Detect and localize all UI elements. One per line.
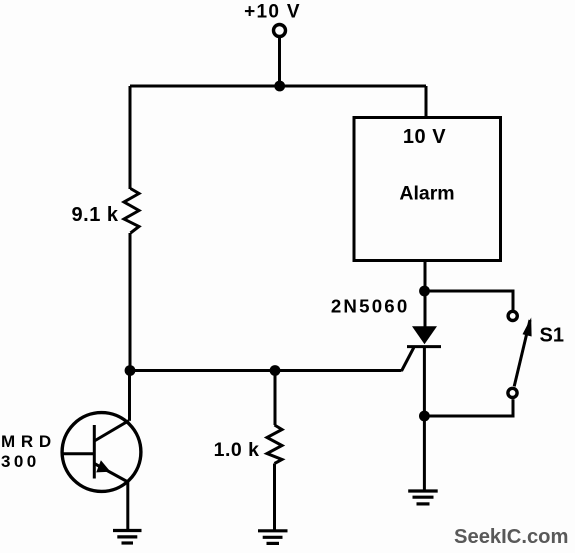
switch S1 lever [514, 320, 530, 386]
svg-text:300: 300 [1, 452, 40, 471]
alarm box [354, 118, 501, 261]
phototransistor emitter lead [94, 464, 128, 483]
wire emitter to ground [126, 482, 129, 530]
phototransistor emitter arrowhead [96, 460, 110, 472]
svg-text:MRD: MRD [1, 432, 57, 451]
phototransistor collector lead [94, 421, 129, 441]
svg-text:SeekIC.com: SeekIC.com [454, 526, 568, 548]
node left junction [125, 365, 136, 376]
wire bus to resistor R1 [129, 86, 132, 189]
ground right [408, 491, 438, 504]
wire bus to alarm box [425, 86, 428, 119]
SCR 2N5060 anode triangle [412, 326, 437, 344]
phototransistor MRD300 body [62, 413, 141, 492]
svg-text:+10 V: +10 V [244, 2, 301, 23]
switch S1 lever arrowhead [523, 318, 532, 337]
wire resistor R2 to ground [273, 464, 276, 530]
phototransistor base lead [63, 452, 94, 455]
SCR gate lead [402, 348, 414, 372]
switch S1 bottom terminal [508, 388, 517, 397]
switch S1 top terminal [508, 311, 517, 320]
wire bottom junction to switch bottom [424, 399, 513, 416]
wire bottom junction to ground [423, 416, 426, 490]
node bottom junction [419, 411, 430, 422]
wire middle node to resistor R2 [274, 371, 277, 426]
SCR cathode bar [407, 345, 441, 348]
node bus junction [274, 81, 285, 92]
ground left [113, 531, 142, 544]
node middle junction [270, 365, 281, 376]
svg-text:2N5060: 2N5060 [331, 296, 410, 317]
resistor 9.1 k [124, 189, 139, 234]
wire alarm box to SCR anode [424, 261, 427, 328]
wire supply terminal to bus [278, 38, 281, 86]
svg-text:S1: S1 [540, 325, 564, 347]
phototransistor base bar [93, 425, 96, 479]
wire top bus [130, 85, 426, 88]
ground middle [258, 531, 288, 544]
wire anode junction to switch top [425, 291, 514, 310]
node SCR anode junction [419, 286, 430, 297]
svg-text:1.0 k: 1.0 k [214, 439, 260, 461]
resistor 1.0 k [267, 425, 282, 464]
wire left node to collector [128, 371, 131, 421]
wire resistor R1 to node [129, 233, 132, 371]
terminal +10V supply [274, 25, 286, 37]
svg-text:10 V: 10 V [403, 126, 446, 148]
svg-text:9.1 k: 9.1 k [72, 204, 119, 226]
wire middle horizontal (node to SCR gate) [130, 369, 402, 372]
svg-text:Alarm: Alarm [399, 183, 454, 205]
wire SCR cathode down to bottom junction [423, 347, 426, 416]
